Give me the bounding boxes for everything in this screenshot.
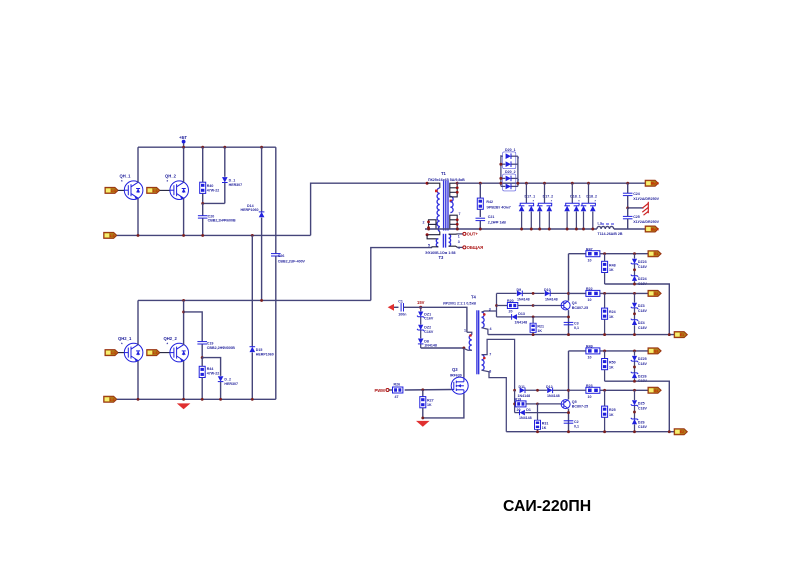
- diode D12: [546, 385, 569, 398]
- svg-text:R24: R24: [609, 310, 616, 314]
- node ОБЩАЯ: [458, 245, 484, 250]
- svg-text:1K: 1K: [537, 329, 542, 333]
- wire gate QH2_1: [118, 352, 124, 354]
- svg-text:R50: R50: [609, 361, 616, 365]
- wire secondary top rail: [457, 182, 647, 184]
- svg-text:D11: D11: [519, 385, 525, 389]
- svg-text:ВЫХ: ВЫХ: [651, 228, 660, 232]
- svg-text:Т114-26А/В 2В: Т114-26А/В 2В: [598, 232, 623, 236]
- svg-text:4: 4: [490, 327, 492, 331]
- wire QH2_2 emitter: [183, 361, 185, 399]
- wire QH2_1 collector: [137, 300, 139, 345]
- resistor R31: [535, 404, 549, 432]
- svg-text:R27: R27: [427, 398, 434, 402]
- svg-text:G3: G3: [654, 349, 659, 353]
- svg-text:1N4148: 1N4148: [424, 344, 437, 348]
- transistor Q4: [561, 301, 588, 310]
- svg-text:C18V: C18V: [638, 425, 648, 429]
- svg-text:QH2_2: QH2_2: [164, 336, 178, 341]
- svg-text:D_2: D_2: [224, 378, 231, 382]
- zener DZ3: [631, 293, 648, 312]
- svg-text:1N4148: 1N4148: [519, 416, 532, 420]
- svg-text:D_1: D_1: [229, 179, 236, 183]
- zener DZ23: [631, 254, 648, 269]
- svg-text:R48: R48: [609, 263, 616, 267]
- capacitor C3: [564, 321, 579, 330]
- wire ch2 left vertical: [514, 390, 516, 412]
- svg-text:5: 5: [428, 244, 430, 248]
- inductor L2: [597, 222, 623, 236]
- capacitor C20: [198, 203, 236, 235]
- svg-text:1N4148: 1N4148: [517, 297, 530, 301]
- node +BT: [179, 135, 187, 147]
- wire zener row to T4 primary bottom: [421, 347, 464, 349]
- svg-text:Q5: Q5: [572, 400, 577, 404]
- rail dots: [525, 182, 528, 185]
- svg-text:8: 8: [489, 370, 491, 374]
- transistor QH_1: [120, 174, 143, 200]
- svg-text:Х1У2А/DR250V: Х1У2А/DR250V: [633, 197, 659, 201]
- svg-text:CBB2,2НФ/600В: CBB2,2НФ/600В: [208, 219, 236, 223]
- svg-text:C2: C2: [574, 420, 579, 424]
- wire QH_2 emitter: [183, 199, 185, 236]
- svg-text:1:3: 1:3: [110, 234, 115, 238]
- svg-text:100n: 100n: [398, 312, 406, 316]
- svg-text:1N4148: 1N4148: [545, 297, 558, 301]
- node PWM: [375, 388, 393, 393]
- zener DZ26: [631, 361, 648, 383]
- dual diode D18_2: [581, 183, 597, 230]
- wire gate QH_1: [118, 189, 124, 191]
- wire E2 rail: [506, 431, 674, 433]
- svg-text:C18V: C18V: [638, 309, 648, 313]
- wire gate QH_2: [160, 189, 170, 191]
- svg-text:C19: C19: [207, 341, 214, 345]
- svg-text:1:3: 1:3: [153, 189, 158, 193]
- svg-text:15V: 15V: [417, 300, 425, 305]
- zener DZ6: [631, 406, 648, 432]
- svg-text:T1: T1: [441, 171, 447, 176]
- svg-text:HER307: HER307: [229, 183, 243, 187]
- svg-text:D1: D1: [526, 408, 531, 412]
- resistor R24: [602, 293, 616, 334]
- svg-text:3: 3: [489, 308, 491, 312]
- connector OUT-: [645, 180, 659, 186]
- zener DZ4: [631, 308, 648, 335]
- capacitor C21: [476, 215, 507, 230]
- resistor R42 snubber: [477, 182, 510, 217]
- diode D13: [497, 312, 569, 324]
- svg-text:47: 47: [395, 395, 399, 399]
- capacitor C2: [564, 420, 579, 429]
- connector X2 gate QH_2: [147, 187, 160, 193]
- dual diode D18_1: [564, 183, 580, 230]
- wire secondary bottom rail: [425, 228, 597, 230]
- wire gate QH2_2: [160, 352, 170, 354]
- dual diode D20_2: [499, 170, 519, 191]
- dual diode D17_1: [519, 183, 535, 230]
- svg-text:DZ23: DZ23: [638, 260, 647, 264]
- chassis ground: [628, 202, 649, 215]
- zener DZ1: [417, 307, 434, 320]
- connector G1: [648, 251, 661, 257]
- svg-text:47W-22: 47W-22: [207, 189, 220, 193]
- svg-text:1N4148: 1N4148: [515, 320, 528, 324]
- svg-text:0,1: 0,1: [574, 425, 579, 429]
- wire R19 to Q5 base: [538, 403, 561, 405]
- wire Q3 drain: [463, 348, 465, 378]
- svg-text:C16V: C16V: [424, 317, 434, 321]
- wire E1 rail: [488, 334, 675, 336]
- svg-text:C18V: C18V: [638, 265, 648, 269]
- resistor R21: [530, 316, 544, 335]
- wire QH_1 emitter: [137, 199, 139, 236]
- svg-text:C26: C26: [278, 254, 285, 258]
- svg-text:1K: 1K: [609, 268, 614, 272]
- svg-text:Т3: Т3: [439, 255, 445, 260]
- svg-text:10: 10: [588, 395, 592, 399]
- wire QH_1 collector: [137, 147, 139, 182]
- svg-text:C18V: C18V: [638, 362, 648, 366]
- resistor R22: [569, 287, 649, 302]
- svg-text:DZ26: DZ26: [638, 374, 647, 378]
- node OUT+: [458, 232, 479, 237]
- resistor R27: [420, 390, 434, 418]
- diode D_1 HER307: [222, 147, 242, 203]
- svg-text:T4: T4: [471, 295, 477, 300]
- dual diode D17_2: [537, 183, 553, 230]
- diode D_2 HER307: [202, 358, 238, 400]
- svg-text:E2: E2: [680, 430, 684, 434]
- resistor R44: [199, 356, 219, 399]
- svg-text:C18V: C18V: [638, 326, 648, 330]
- mosfet Q3: [450, 367, 468, 394]
- svg-text:7: 7: [489, 352, 491, 356]
- svg-text:47W-22: 47W-22: [207, 372, 220, 376]
- wire row C2: [605, 381, 670, 432]
- svg-text:D9: D9: [517, 288, 522, 292]
- svg-text:D20_1: D20_1: [505, 148, 516, 152]
- svg-text:D10: D10: [544, 288, 551, 292]
- diode D10: [523, 288, 569, 301]
- svg-text:1K: 1K: [427, 403, 432, 407]
- svg-text:3: 3: [458, 240, 460, 244]
- resistor R19: [515, 398, 539, 413]
- svg-text:ЭРВ2Вт 4Ом7: ЭРВ2Вт 4Ом7: [486, 206, 510, 210]
- svg-text:ВЫХ: ВЫХ: [651, 182, 660, 186]
- transistor Q5: [561, 400, 588, 409]
- diode D11: [513, 385, 547, 398]
- ground: [177, 403, 191, 409]
- connector X6 lower rail: [104, 396, 117, 402]
- svg-text:R42: R42: [486, 200, 493, 204]
- svg-text:10: 10: [588, 298, 592, 302]
- svg-text:QH_1: QH_1: [120, 174, 132, 179]
- svg-text:7: 7: [459, 212, 461, 216]
- connector X5 gate QH2_2: [147, 350, 160, 356]
- svg-text:1: 1: [464, 329, 466, 333]
- svg-text:1:3: 1:3: [111, 189, 116, 193]
- svg-text:DZ24: DZ24: [638, 277, 647, 281]
- svg-text:C18V: C18V: [638, 406, 648, 410]
- svg-text:DZ4: DZ4: [638, 321, 645, 325]
- wire 15V rail: [404, 307, 467, 332]
- svg-text:DZ25: DZ25: [638, 357, 647, 361]
- svg-text:1:3: 1:3: [153, 351, 158, 355]
- svg-text:HERP1060: HERP1060: [241, 208, 259, 212]
- power entry arrow: [388, 304, 399, 311]
- diode D9: [497, 288, 530, 301]
- wire lower collector rail: [138, 299, 371, 301]
- svg-text:1:3: 1:3: [111, 351, 116, 355]
- wire QH_2 collector: [183, 147, 185, 182]
- connector OUT+: [645, 226, 659, 232]
- transistor QH2_2: [164, 336, 189, 362]
- capacitor C1: [398, 299, 406, 316]
- svg-text:R26: R26: [394, 382, 401, 386]
- svg-text:BC807-25: BC807-25: [572, 405, 588, 409]
- resistor R48: [602, 254, 616, 284]
- svg-text:ПК25х16х65 5А/9,8кВ: ПК25х16х65 5А/9,8кВ: [428, 178, 465, 182]
- svg-text:G4: G4: [654, 389, 659, 393]
- zener DZ5: [631, 390, 648, 410]
- svg-text:ИР2001 2:1:1 0,5хВ: ИР2001 2:1:1 0,5хВ: [443, 302, 476, 306]
- svg-text:1K: 1K: [542, 426, 547, 430]
- svg-text:C25: C25: [633, 215, 640, 219]
- wire Q3 source: [423, 394, 464, 418]
- wire row A2: [605, 284, 670, 335]
- wire QH2_2 collector: [183, 300, 185, 345]
- resistor R23: [569, 384, 649, 399]
- zener DZ2: [417, 317, 434, 334]
- connector G4: [648, 387, 661, 393]
- wire lower emitter rail: [117, 398, 276, 400]
- svg-text:2: 2: [423, 221, 425, 225]
- svg-text:PWM: PWM: [375, 388, 386, 393]
- wire step to T1 primary top: [311, 183, 428, 235]
- svg-text:D14: D14: [247, 204, 254, 208]
- wire step to T3 primary: [371, 248, 432, 301]
- svg-text:DZ6: DZ6: [638, 420, 645, 424]
- resistor R40: [200, 147, 220, 203]
- svg-text:ОБЩАЯ: ОБЩАЯ: [467, 245, 484, 250]
- resistor R50: [602, 351, 616, 381]
- svg-text:0,1: 0,1: [574, 326, 579, 330]
- svg-text:1K: 1K: [609, 315, 614, 319]
- svg-text:+БТ: +БТ: [179, 135, 187, 140]
- svg-text:2,2НФ 1кВ: 2,2НФ 1кВ: [488, 220, 506, 224]
- diode D1: [515, 408, 569, 420]
- connector G3: [648, 348, 661, 354]
- transformer T4: [443, 295, 479, 375]
- svg-text:R21: R21: [537, 324, 544, 328]
- capacitor C24: [623, 183, 660, 208]
- T4 secondary 3-4: [482, 308, 497, 335]
- svg-text:HER307: HER307: [224, 382, 238, 386]
- svg-text:BC807-25: BC807-25: [572, 306, 588, 310]
- wire ch1 main vertical: [568, 254, 570, 301]
- wire PWM to gate: [405, 389, 452, 392]
- svg-text:1K: 1K: [609, 365, 614, 369]
- svg-text:1N4148: 1N4148: [547, 394, 560, 398]
- connector X3 emitter rail: [104, 232, 117, 238]
- svg-text:1: 1: [458, 235, 460, 239]
- svg-text:G1: G1: [654, 252, 659, 256]
- svg-text:R31: R31: [542, 421, 549, 425]
- svg-text:C24: C24: [633, 192, 640, 196]
- svg-text:CBB2,2UF-400V: CBB2,2UF-400V: [278, 259, 306, 263]
- capacitor C26: [271, 147, 306, 399]
- svg-text:DZ3: DZ3: [638, 304, 645, 308]
- svg-text:10: 10: [588, 356, 592, 360]
- wire R20 to Q4 base: [533, 305, 561, 307]
- wire +BT top rail: [138, 146, 276, 148]
- connector E1: [674, 332, 687, 338]
- diode D8: [418, 330, 437, 348]
- junction dots top rail: [182, 146, 185, 149]
- svg-text:G2: G2: [654, 292, 659, 296]
- wire ch1 left vertical: [496, 293, 498, 317]
- resistor R25: [602, 390, 616, 431]
- svg-text:C3: C3: [574, 321, 579, 325]
- svg-text:DZ5: DZ5: [638, 402, 645, 406]
- svg-text:OUT+: OUT+: [467, 232, 479, 237]
- connector G2: [648, 290, 661, 296]
- svg-text:20: 20: [509, 310, 513, 314]
- svg-text:Q4: Q4: [572, 301, 577, 305]
- connector E2: [674, 429, 687, 435]
- diode D14 HERP1060: [241, 147, 265, 300]
- transistor QH_2: [165, 174, 189, 200]
- transformer T1: [423, 171, 466, 236]
- svg-text:QH_2: QH_2: [165, 174, 177, 179]
- svg-text:10: 10: [588, 258, 592, 262]
- resistor R49: [569, 345, 649, 360]
- svg-text:R40: R40: [207, 184, 214, 188]
- svg-text:C20: C20: [208, 214, 215, 218]
- svg-text:R44: R44: [207, 367, 214, 371]
- svg-text:QH2_1: QH2_1: [118, 336, 132, 341]
- resistor R20: [497, 299, 535, 314]
- ground Q3: [416, 421, 430, 427]
- svg-text:HERP1060: HERP1060: [256, 352, 274, 356]
- capacitor C19: [184, 312, 236, 358]
- node 15V: [417, 300, 425, 309]
- svg-text:R25: R25: [609, 408, 616, 412]
- resistor R26: [393, 382, 403, 398]
- current transformer T3: [425, 234, 460, 260]
- svg-text:1K: 1K: [609, 413, 614, 417]
- svg-text:D13: D13: [518, 312, 525, 316]
- svg-text:1:3: 1:3: [110, 398, 115, 402]
- svg-text:Х1У2А/DR250V: Х1У2А/DR250V: [633, 220, 659, 224]
- svg-text:Q3: Q3: [452, 367, 458, 372]
- svg-text:D15: D15: [256, 348, 263, 352]
- transistor QH2_1: [118, 336, 143, 362]
- wire top emitter rail: [117, 234, 311, 236]
- diode D15 HERP1060: [250, 235, 274, 399]
- wire QH2_1 emitter: [137, 361, 139, 399]
- svg-text:C21: C21: [488, 215, 495, 219]
- wire R40/D_1 bottom: [203, 202, 225, 204]
- svg-text:C1: C1: [398, 299, 403, 303]
- svg-text:E1: E1: [680, 333, 684, 337]
- zener DZ24: [631, 264, 648, 286]
- dual diode D20_1: [499, 148, 519, 183]
- zener DZ25: [631, 351, 648, 366]
- resistor R47: [569, 247, 649, 262]
- connector X1 gate QH_1: [105, 187, 118, 193]
- svg-text:САИ-220ПН: САИ-220ПН: [503, 498, 591, 515]
- svg-text:CBB2,2НФ/600В: CBB2,2НФ/600В: [207, 346, 235, 350]
- svg-text:D20_2: D20_2: [505, 170, 516, 174]
- svg-text:D12: D12: [546, 385, 553, 389]
- T4 secondary 7-8: [482, 339, 515, 431]
- capacitor C25: [623, 206, 660, 229]
- svg-text:ЭЭ160Б-1Ом 1:58: ЭЭ160Б-1Ом 1:58: [425, 251, 456, 255]
- wire ch2 main vertical: [568, 351, 570, 400]
- svg-text:C16V: C16V: [424, 330, 434, 334]
- connector X4 gate QH2_1: [105, 350, 118, 356]
